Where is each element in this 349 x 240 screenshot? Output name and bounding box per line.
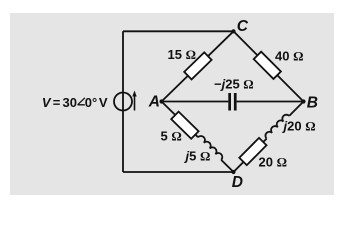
svg-text:j20 Ω: j20 Ω [282,119,316,134]
svg-text:0°V: 0°V [85,95,108,110]
svg-text:A: A [148,94,160,111]
svg-text:−j25 Ω: −j25 Ω [214,76,254,91]
svg-text:20 Ω: 20 Ω [259,155,288,170]
svg-text:C: C [237,18,249,35]
svg-text:5 Ω: 5 Ω [161,129,182,144]
svg-text:D: D [232,174,243,191]
svg-text:B: B [307,95,318,112]
svg-text:V=30: V=30 [42,95,77,110]
svg-text:40 Ω: 40 Ω [275,49,304,64]
svg-text:15 Ω: 15 Ω [168,47,197,62]
svg-text:j5 Ω: j5 Ω [184,149,211,164]
